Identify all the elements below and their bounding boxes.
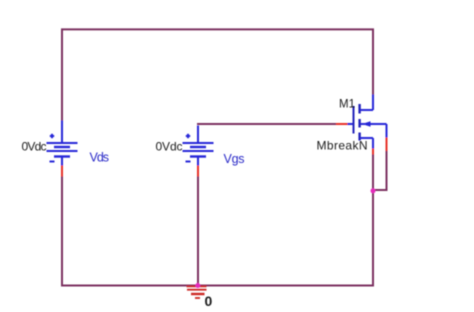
- svg-text:0Vdc: 0Vdc: [156, 140, 183, 154]
- svg-text:0: 0: [205, 293, 213, 309]
- svg-text:MbreakN: MbreakN: [317, 139, 368, 153]
- svg-text:0Vdc: 0Vdc: [22, 140, 47, 154]
- svg-text:M1: M1: [339, 99, 355, 111]
- svg-text:Vgs: Vgs: [224, 152, 245, 166]
- svg-text:Vds: Vds: [90, 151, 110, 165]
